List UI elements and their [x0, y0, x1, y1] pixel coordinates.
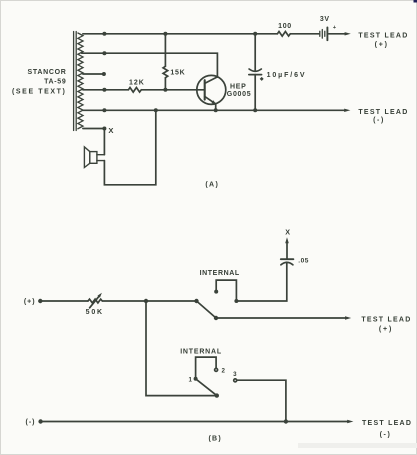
svg-text:2: 2 — [222, 368, 226, 375]
junction dot emitter on rail — [214, 108, 218, 112]
svg-text:TEST LEAD: TEST LEAD — [361, 316, 411, 323]
transistor Q1 — [197, 75, 226, 110]
wire link to capacitor — [236, 262, 286, 301]
junction dot 15K top — [163, 32, 167, 36]
svg-text:100: 100 — [278, 23, 292, 30]
svg-text:50K: 50K — [86, 309, 104, 316]
switch S1a blade tip dot — [214, 316, 218, 320]
wire bottom rail (A) — [83, 109, 345, 111]
svg-text:INTERNAL: INTERNAL — [180, 348, 222, 355]
wire top rail — [83, 33, 278, 35]
junction dot mid (B) — [144, 299, 148, 303]
wire minus rail (B) — [41, 421, 349, 423]
svg-text:(+): (+) — [379, 326, 393, 333]
wire tap4 to 12K — [83, 89, 128, 91]
wire X to speaker — [103, 129, 105, 155]
svg-text:TEST LEAD: TEST LEAD — [358, 33, 408, 40]
arrow to X (B) — [285, 237, 289, 243]
svg-text:.05: .05 — [298, 258, 309, 265]
label HEP G0005 — [227, 84, 252, 98]
wire contact1 to contact2 link — [196, 357, 217, 379]
resistor 100 — [277, 31, 290, 36]
svg-text:TEST LEAD: TEST LEAD — [362, 420, 412, 427]
label TEST LEAD (-) (A) — [358, 109, 408, 124]
svg-text:(+): (+) — [24, 298, 36, 305]
svg-text:(+): (+) — [375, 41, 389, 48]
svg-text:G0005: G0005 — [227, 91, 252, 98]
svg-text:TEST LEAD: TEST LEAD — [358, 109, 408, 116]
switch S1b contact 2 — [215, 368, 218, 371]
arrow test lead minus (A) — [344, 109, 350, 112]
wire test lead plus line (B) — [216, 317, 346, 319]
wire internal contact link — [216, 280, 236, 301]
arrow test lead minus (B) — [347, 420, 353, 423]
terminal plus (B) — [38, 299, 42, 303]
transformer T1 core — [74, 32, 77, 131]
wire resistor to battery — [290, 33, 319, 35]
label TEST LEAD (+) (A) — [358, 33, 408, 49]
svg-text:12K: 12K — [129, 79, 145, 86]
svg-text:X: X — [108, 126, 113, 135]
node dot tap3 — [102, 72, 106, 76]
transformer T1 winding — [78, 33, 83, 129]
junction dot tap4 — [102, 88, 106, 92]
switch S1b contact 3 — [234, 379, 237, 382]
wire junction down to switch S1b — [146, 301, 217, 396]
arrow test lead plus (A) — [345, 32, 351, 35]
wire tap3 stub — [83, 73, 104, 75]
junction dot cap top — [253, 32, 257, 36]
wire plus line left (B) — [40, 300, 88, 302]
switch S1a blade — [197, 301, 217, 318]
arrow test lead plus (B) — [345, 316, 351, 319]
wire battery to test lead — [329, 33, 346, 35]
switch S1b contact 1 dot — [194, 377, 198, 381]
capacitor C1 10uF — [249, 34, 262, 111]
battery B1 — [320, 27, 328, 40]
svg-text:10µF/6V: 10µF/6V — [267, 72, 307, 79]
svg-text:3: 3 — [233, 371, 237, 378]
svg-text:1: 1 — [188, 376, 192, 383]
wire contact3 to minus rail — [237, 380, 286, 421]
junction dot tap1 — [102, 32, 106, 36]
svg-text:(SEE TEXT): (SEE TEXT) — [12, 88, 67, 95]
wire tap6 stub — [83, 128, 105, 130]
junction dot minus rail (B) — [284, 419, 288, 423]
svg-text:15K: 15K — [170, 70, 185, 77]
junction dot cap bottom on rail — [253, 108, 257, 112]
wire tap2 to collector — [82, 53, 218, 77]
junction dot tap2 — [102, 51, 106, 55]
wire plus line right (B) — [103, 300, 197, 302]
resistor R 15K with wires — [163, 34, 168, 90]
switch S1a internal contact dot — [214, 290, 218, 294]
switch S1a pivot dot — [194, 299, 198, 303]
junction dot 15K bottom — [163, 88, 167, 92]
switch S1b pivot dot — [215, 393, 219, 397]
capacitor C1 plus mark — [260, 77, 264, 81]
wire speaker return — [104, 110, 155, 185]
svg-text:INTERNAL: INTERNAL — [200, 270, 240, 277]
junction dot tap5 — [102, 108, 106, 112]
svg-text:TA-59: TA-59 — [44, 79, 66, 86]
svg-text:(-): (-) — [373, 117, 385, 124]
label TEST LEAD (+) (B) — [361, 316, 411, 333]
wire base lead — [142, 89, 205, 91]
svg-text:X: X — [285, 227, 290, 236]
resistor R 12K — [128, 88, 141, 93]
label STANCOR TA-59 (SEE TEXT) — [12, 69, 67, 95]
node X dot — [102, 127, 106, 131]
junction dot link corner — [234, 299, 238, 303]
svg-text:(-): (-) — [26, 419, 36, 426]
svg-text:HEP: HEP — [230, 84, 247, 91]
svg-text:(-): (-) — [380, 431, 392, 438]
svg-text:STANCOR: STANCOR — [28, 69, 67, 76]
label TEST LEAD (-) (B) — [362, 420, 412, 439]
terminal minus (B) — [38, 419, 42, 423]
svg-text:3V: 3V — [320, 16, 330, 23]
junction dot speaker return on rail — [154, 108, 158, 112]
switch S1b blade — [196, 379, 217, 396]
capacitor C2 .05 — [281, 243, 294, 264]
svg-text:(B): (B) — [209, 435, 222, 442]
svg-text:(A): (A) — [205, 182, 219, 189]
potentiometer 50K — [88, 293, 102, 308]
speaker LS1 — [84, 147, 104, 168]
